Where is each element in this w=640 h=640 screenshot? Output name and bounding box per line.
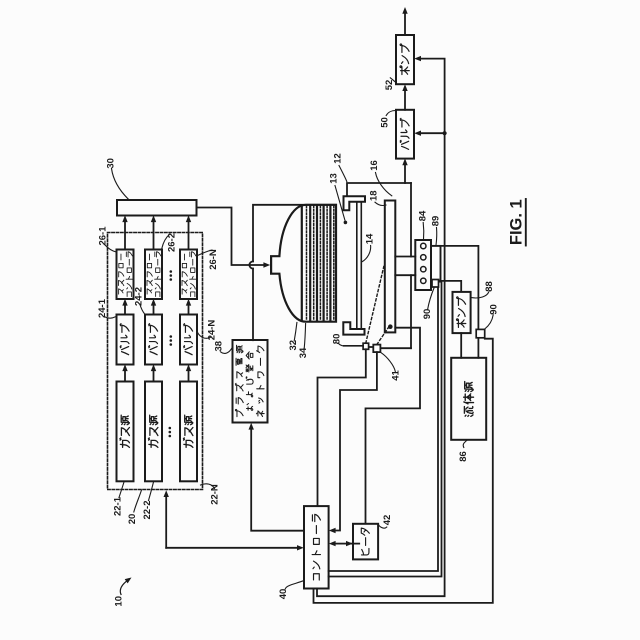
wire manifold to gas inlet [197, 208, 265, 266]
svg-text:14: 14 [365, 233, 376, 244]
baffle hole 3 [421, 267, 426, 272]
svg-text:34: 34 [298, 347, 309, 358]
lift pin dotted A [366, 267, 384, 344]
wire controller to network 38 [251, 429, 304, 531]
baffle hole 1 [421, 243, 426, 248]
wire chamber port lower [395, 274, 415, 276]
dome 32 [271, 205, 336, 322]
chamber bottom wall [380, 347, 411, 349]
mass flow controller 26-N [180, 250, 197, 300]
window clamp bottom [343, 322, 364, 334]
wire coolant return [441, 246, 479, 329]
baffle plate 84 [415, 240, 431, 290]
controller 40 [304, 506, 329, 588]
ellipsis MFCs [170, 270, 173, 273]
wire MFC 26-N to manifold [188, 222, 190, 250]
chamber right wall upper [410, 183, 412, 257]
wire gas source 22-N to valve [188, 371, 190, 382]
manifold 30 [117, 200, 197, 216]
svg-text:24-1: 24-1 [97, 298, 108, 318]
gas source 22-2 [145, 382, 162, 482]
svg-text:90: 90 [422, 309, 433, 320]
svg-text:10: 10 [113, 596, 124, 607]
coolant channel plate 89 [431, 246, 441, 282]
svg-text:24-N: 24-N [207, 320, 218, 341]
svg-text:FIG. 1: FIG. 1 [508, 199, 526, 245]
svg-text:24-2: 24-2 [134, 287, 145, 306]
valve 24-N [180, 315, 197, 365]
svg-text:89: 89 [431, 216, 442, 227]
wire chamber to valve 50 [404, 165, 406, 183]
wire chamber port upper [395, 256, 415, 258]
heater 42 [353, 524, 378, 560]
wire controller to conduit 90 [314, 339, 493, 603]
wire heater bidirectional [347, 543, 359, 545]
ellipsis gas sources [169, 427, 172, 430]
plasma power and match network 38 [233, 340, 268, 423]
pump 52 [396, 35, 414, 84]
sensor 41 [373, 345, 380, 353]
wire valve 50 to pump 52 [404, 91, 406, 110]
svg-text:22-N: 22-N [210, 484, 221, 505]
svg-text:40: 40 [278, 589, 289, 600]
svg-text:88: 88 [484, 281, 495, 292]
svg-text:52: 52 [384, 80, 395, 91]
wire controller to baffle B [329, 282, 442, 577]
wire exhaust out [404, 14, 406, 36]
wire actuator 80 to controller [318, 349, 366, 506]
svg-text:13: 13 [329, 173, 340, 184]
lift pin dotted B [377, 326, 390, 345]
ellipsis valves [170, 335, 173, 338]
chuck 18 [385, 201, 396, 333]
svg-text:16: 16 [369, 160, 380, 171]
svg-text:26-N: 26-N [208, 249, 219, 270]
wire valve 24-1 to MFC [124, 305, 126, 315]
dashed box 20 [108, 233, 203, 490]
actuator 80 [363, 343, 369, 349]
wire chuck to heater 42 [366, 328, 421, 524]
svg-text:20: 20 [127, 514, 138, 525]
mass flow controller 26-2 [145, 250, 162, 300]
baffle hole 4 [421, 278, 426, 283]
svg-text:38: 38 [214, 341, 225, 352]
wire sensor 41 to controller [335, 352, 377, 530]
svg-text:12: 12 [333, 153, 344, 164]
svg-text:22-2: 22-2 [142, 500, 153, 519]
wire controller to gas box [165, 497, 167, 548]
substrate 14 [357, 202, 362, 329]
svg-text:84: 84 [418, 210, 429, 221]
wire MFC 26-2 to manifold [153, 222, 155, 250]
wire clamp to actuator 80 [344, 345, 363, 347]
svg-text:90: 90 [489, 304, 500, 315]
valve 50 [396, 110, 414, 159]
chamber top wall [347, 183, 411, 197]
valve 24-2 [145, 315, 162, 365]
wire controller to baffle A [329, 282, 438, 571]
svg-text:42: 42 [382, 515, 393, 526]
coil winding 34 dotted [306, 206, 308, 321]
conduit 90 lower [476, 329, 485, 337]
chamber right wall lower [410, 275, 412, 348]
svg-text:22-1: 22-1 [113, 496, 124, 516]
baffle hole 2 [421, 255, 426, 260]
valve 24-1 [117, 315, 134, 365]
wire gas source 22-1 to valve [124, 371, 126, 382]
window clamp top [344, 196, 366, 210]
gas source 22-1 [117, 382, 134, 482]
svg-text:18: 18 [368, 190, 379, 201]
pump 88 [453, 292, 471, 333]
svg-text:80: 80 [331, 334, 342, 345]
wire valve 24-2 to MFC [153, 305, 155, 315]
svg-text:86: 86 [458, 451, 469, 462]
wire controller to exhaust valves [317, 133, 445, 596]
gas source 22-N [180, 382, 197, 482]
svg-text:26-1: 26-1 [97, 226, 108, 246]
wire RF feed to coil [252, 269, 254, 341]
wire pump 88 to fluid source [460, 333, 462, 358]
wire MFC 26-1 to manifold [124, 222, 126, 250]
wire conduit to pump 88 [439, 281, 462, 292]
mass flow controller 26-1 [117, 250, 134, 300]
wire valve 24-N to MFC [188, 305, 190, 315]
svg-text:50: 50 [380, 117, 391, 128]
svg-text:41: 41 [391, 370, 402, 381]
conduit 90 upper [432, 280, 439, 288]
fluid source 86 [451, 358, 486, 440]
coil winding 34 solid [301, 206, 303, 321]
wire gas source 22-2 to valve [153, 371, 155, 382]
svg-text:30: 30 [105, 158, 116, 169]
